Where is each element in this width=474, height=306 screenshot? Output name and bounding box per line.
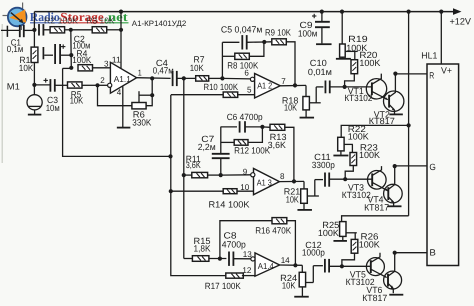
- wire rail to R19: [341, 12, 343, 44]
- transistor VT1: [366, 79, 386, 99]
- capacitor C12: [325, 259, 329, 273]
- resistor R22 (trimmer): [338, 137, 344, 151]
- R16 label: [255, 226, 291, 236]
- C3 value label: [46, 95, 60, 113]
- svg-text:КТ817: КТ817: [369, 116, 395, 126]
- wire collectors to HL1 B pin: [395, 252, 427, 254]
- VT5 label: [346, 270, 375, 288]
- svg-text:R3 10K: R3 10K: [87, 15, 115, 25]
- ground (R22): [333, 155, 348, 157]
- VT4 collector: [388, 166, 394, 189]
- node VT1/VT2 collectors: [393, 72, 397, 76]
- VT2 emitter: [389, 104, 395, 113]
- wire signal column to filters: [183, 78, 185, 258]
- VT6 emitter: [388, 283, 394, 293]
- svg-text:100K: 100K: [318, 228, 339, 238]
- svg-text:R12 100K: R12 100K: [234, 146, 270, 156]
- ground (microphone): [28, 114, 41, 116]
- op-amp A1.2: [250, 74, 280, 99]
- ground (R19): [336, 58, 351, 60]
- wire V+ line: [440, 12, 442, 64]
- wire R4 to pin3: [92, 67, 110, 69]
- wire R24 to ground: [301, 287, 303, 296]
- logo text RadioStorage.net: [30, 10, 129, 24]
- resistor R1: [31, 47, 38, 62]
- ground (pin 4): [117, 127, 131, 129]
- C3 plus sign: [44, 78, 48, 82]
- VT3 collector: [372, 166, 381, 175]
- node VT5 base: [340, 264, 344, 268]
- node D (C6/R12/R13): [260, 125, 264, 129]
- svg-text:1,8K: 1,8K: [194, 244, 211, 254]
- svg-text:A1.4: A1.4: [258, 261, 274, 271]
- node filter2 input: [219, 173, 223, 177]
- wire +12V bus to R22: [341, 125, 408, 137]
- pin 11 line: [120, 12, 122, 69]
- wire A1.3 output: [279, 180, 304, 182]
- resistor R6 (trimmer): [132, 103, 146, 109]
- wire R17 to pin12: [242, 275, 255, 277]
- node A1.1 output: [150, 76, 154, 80]
- node VT3 base: [343, 177, 347, 181]
- svg-text:1000p: 1000p: [302, 247, 325, 257]
- svg-text:5: 5: [247, 85, 252, 95]
- node B (top row / C2 column): [69, 28, 73, 32]
- resistor R16: [272, 218, 287, 224]
- wire R15 to pin13 node: [209, 258, 226, 260]
- resistor R11: [192, 172, 208, 177]
- svg-text:9: 9: [243, 167, 248, 177]
- resistor R15: [192, 256, 209, 262]
- node pin2: [95, 83, 99, 87]
- resistor R20: [351, 60, 358, 74]
- C1 value label: [7, 37, 24, 54]
- node top rail / +12V distribution column: [407, 10, 411, 14]
- svg-text:КТ817: КТ817: [364, 202, 389, 212]
- wire pin2 feedback down: [98, 85, 133, 105]
- svg-text:6: 6: [244, 68, 249, 78]
- wire A1.4 output: [280, 264, 303, 266]
- capacitor C5: [242, 35, 246, 49]
- svg-text:3,6K: 3,6K: [186, 160, 201, 170]
- pin 6 label: [244, 68, 249, 78]
- wire output to R24: [301, 265, 303, 272]
- pin 10 label: [240, 182, 249, 192]
- node VT5/VT6 collectors: [393, 251, 397, 255]
- svg-text:13: 13: [243, 249, 252, 259]
- wire C6 to node D: [245, 126, 263, 128]
- op-amp A1.1: [108, 62, 137, 93]
- VT1 emitter: [372, 91, 388, 100]
- connector HL1 box: [427, 64, 459, 266]
- svg-text:V+: V+: [441, 65, 452, 75]
- svg-text:10K: 10K: [286, 194, 299, 204]
- R11 label: [186, 154, 201, 170]
- svg-text:B: B: [429, 247, 436, 257]
- node VT3/VT4 collectors: [393, 164, 397, 168]
- pin 2 label: [100, 75, 105, 85]
- VT4 label: [364, 194, 389, 212]
- R21 tap to C11: [307, 180, 323, 196]
- VT1 collector: [372, 74, 381, 85]
- resistor R10 row: [171, 94, 223, 96]
- R25 label: [318, 220, 339, 238]
- R21 label: [284, 186, 301, 204]
- svg-text:0,1м: 0,1м: [7, 44, 24, 54]
- R13 label: [268, 132, 287, 150]
- R24 tap to C12: [306, 266, 323, 283]
- capacitor C3: [50, 79, 54, 92]
- svg-text:КТ3102: КТ3102: [344, 93, 372, 103]
- svg-text:HL1: HL1: [421, 51, 437, 61]
- svg-text:10K: 10K: [284, 102, 297, 112]
- wire R25 to ground: [342, 237, 344, 241]
- transistor VT2: [384, 91, 404, 111]
- wire R11 to pin9 node: [208, 174, 221, 176]
- wire R19 to ground: [341, 57, 343, 58]
- wire output to R18: [305, 85, 307, 96]
- VT6 label: [362, 285, 387, 303]
- R9 label: [265, 27, 291, 37]
- svg-text:A1.1: A1.1: [114, 74, 131, 84]
- C12 label: [302, 240, 325, 257]
- pin 13 label: [243, 249, 252, 259]
- R4 label: [72, 48, 91, 65]
- wire node B to R3: [71, 29, 93, 31]
- wire +12V distribution column: [408, 12, 410, 126]
- svg-text:R9 10K: R9 10K: [265, 27, 291, 37]
- ground (R21): [297, 209, 312, 211]
- wire R2 to node B: [65, 29, 71, 31]
- wire signal to R15: [184, 258, 193, 260]
- C10 label: [308, 58, 332, 77]
- svg-text:330K: 330K: [132, 117, 151, 127]
- C5 label: [221, 25, 263, 35]
- wire R12 corner up: [248, 127, 262, 142]
- svg-text:КТ3102: КТ3102: [342, 190, 371, 200]
- wire R14 to pin10: [237, 190, 254, 192]
- R19 label: [346, 34, 367, 53]
- pin 14 label: [281, 255, 290, 265]
- svg-text:7: 7: [281, 76, 286, 86]
- pin 12 label: [242, 265, 251, 275]
- svg-text:2: 2: [100, 75, 105, 85]
- A1.2 label: [257, 80, 272, 90]
- svg-text:R10 100K: R10 100K: [204, 82, 239, 92]
- node R6 tap/output column: [150, 93, 154, 97]
- C2 label: [72, 34, 90, 51]
- svg-text:R14 100K: R14 100K: [209, 199, 250, 209]
- svg-text:10K: 10K: [282, 281, 296, 291]
- C9 label: [298, 20, 318, 39]
- ground (R25): [333, 240, 347, 242]
- svg-text:R2 100K: R2 100K: [44, 15, 78, 25]
- svg-text:R16 470K: R16 470K: [255, 226, 291, 236]
- VT5 emitter: [371, 269, 387, 278]
- node A1.4 output: [293, 263, 297, 267]
- svg-text:100м: 100м: [298, 29, 318, 39]
- transistor VT4: [384, 184, 403, 203]
- R26 label: [359, 232, 380, 250]
- svg-text:10: 10: [240, 182, 249, 192]
- A1.4 label: [258, 261, 274, 271]
- capacitor C9 (electrolytic): [312, 12, 330, 44]
- svg-text:КТ817: КТ817: [362, 293, 387, 303]
- wire R6 to output: [146, 78, 152, 105]
- ground (VT2 emitter): [389, 113, 403, 115]
- svg-text:0,47м: 0,47м: [153, 65, 174, 75]
- wire reference bus: [63, 68, 171, 156]
- R22 label: [348, 124, 369, 142]
- resistor R18 (trimmer): [303, 97, 310, 110]
- svg-text:3: 3: [104, 58, 109, 68]
- svg-text:8: 8: [280, 171, 285, 181]
- node distribution/ch2 bus: [407, 123, 411, 127]
- svg-text:10м: 10м: [46, 103, 60, 113]
- svg-text:100K: 100K: [348, 132, 369, 142]
- R8 label: [227, 61, 258, 71]
- C8 label: [222, 230, 246, 249]
- resistor R12: [234, 140, 248, 146]
- svg-text:14: 14: [281, 255, 290, 265]
- wire collectors to HL1 R pin: [395, 73, 427, 75]
- resistor R2: [50, 27, 65, 33]
- wire R12 row: [221, 141, 235, 143]
- VT6 collector: [388, 253, 395, 276]
- svg-text:3,6K: 3,6K: [268, 140, 286, 150]
- ground (VT6 emitter): [389, 294, 403, 296]
- wire R13 to A1.3 output: [285, 127, 294, 181]
- resistor R24 (trimmer): [299, 272, 305, 287]
- wire input to C1: [1, 29, 20, 31]
- resistor R4: [78, 65, 93, 71]
- wire C6 row: [221, 126, 237, 128]
- node top rail / pin11 column: [119, 10, 123, 14]
- svg-text:R8 100K: R8 100K: [227, 61, 258, 71]
- node filter3 input: [218, 257, 222, 261]
- B pin label: [429, 247, 436, 257]
- svg-text:10K: 10K: [70, 96, 84, 106]
- wire R16 to A1.4 output: [287, 221, 296, 266]
- R6 label: [132, 109, 151, 127]
- svg-text:1: 1: [138, 67, 142, 77]
- svg-text:R: R: [429, 70, 434, 80]
- node top rail / R19: [340, 10, 344, 14]
- wire output to R21: [303, 181, 305, 188]
- svg-text:100K: 100K: [359, 240, 380, 250]
- wire C10 to VT1 base: [330, 86, 372, 88]
- svg-text:M1: M1: [7, 82, 20, 92]
- R12 label: [234, 146, 270, 156]
- wire R23 to VT3 base node: [345, 166, 353, 180]
- svg-text:100K: 100K: [72, 55, 91, 65]
- capacitor C10: [325, 81, 329, 94]
- svg-text:А1-КР1401УД2: А1-КР1401УД2: [132, 19, 187, 28]
- A1.3 label: [257, 178, 272, 188]
- input terminal: [6, 26, 8, 37]
- capacitor C1: [20, 25, 24, 37]
- VT1 label: [344, 86, 372, 103]
- R22 tap to R23: [344, 144, 353, 152]
- wire pin2 node to A1.1 inverting input: [98, 84, 108, 86]
- transistor VT3: [368, 171, 387, 190]
- R3 label: [87, 15, 115, 25]
- svg-text:A1 3: A1 3: [257, 178, 272, 188]
- resistor R14 row: [171, 190, 223, 192]
- svg-text:C6 4700p: C6 4700p: [227, 112, 263, 122]
- op-amp A1.3: [251, 168, 280, 194]
- node signal/R11: [182, 173, 186, 177]
- V+ pin label: [441, 65, 452, 75]
- VT2 collector: [389, 74, 395, 97]
- resistor R23: [350, 153, 357, 166]
- node reference/R14: [169, 189, 173, 193]
- svg-text:R17 100K: R17 100K: [205, 281, 241, 291]
- node VT1 base: [343, 85, 347, 89]
- node C (C5/R8/R9): [262, 40, 266, 44]
- wire C3 to R5: [55, 84, 68, 86]
- pin 3 label: [104, 58, 109, 68]
- resistor R26: [351, 239, 358, 253]
- pin 5 label: [247, 85, 252, 95]
- resistor R21 (trimmer): [301, 189, 308, 203]
- wire R3 to pin11 column: [107, 29, 121, 31]
- capacitor C8: [229, 252, 233, 266]
- wire reference column link: [63, 67, 72, 69]
- pin 4 line: [122, 87, 124, 128]
- svg-text:2,2м: 2,2м: [198, 142, 216, 152]
- wire node C to R9: [264, 41, 271, 43]
- VT4 emitter: [388, 197, 394, 206]
- R17 label: [205, 281, 241, 291]
- R14 label: [209, 199, 250, 209]
- wire node D to R13: [262, 126, 270, 128]
- svg-text:4: 4: [117, 87, 122, 97]
- VT3 emitter: [372, 182, 388, 191]
- wire A1.1 output row: [137, 77, 171, 80]
- svg-text:100K: 100K: [359, 150, 380, 160]
- C6 label: [227, 112, 263, 122]
- resistor R25 (trimmer): [340, 222, 346, 237]
- pin 7 label: [281, 76, 286, 86]
- svg-text:11: 11: [112, 54, 121, 64]
- capacitor C4: [173, 71, 177, 86]
- R24 label: [280, 273, 297, 291]
- node C4/R7 junction: [177, 76, 196, 80]
- R2 label (behind logo): [44, 15, 78, 25]
- svg-text:C5 0,047м: C5 0,047м: [221, 25, 263, 35]
- svg-text:12: 12: [242, 265, 251, 275]
- op-amp A1.4: [251, 253, 280, 276]
- node A1.2 output: [293, 83, 297, 87]
- node A (C1/R1/rail column): [32, 12, 36, 48]
- ground (VT4 emitter): [388, 205, 402, 207]
- pin 1 label: [138, 67, 142, 77]
- wire C8 to pin13: [233, 258, 250, 260]
- wire ch3 bus: [342, 216, 409, 222]
- resistor R19 (trimmer): [340, 44, 346, 57]
- wire pin9: [221, 174, 251, 176]
- wire collectors to HL1 G pin: [395, 165, 427, 167]
- wire R18 to ground: [305, 110, 307, 117]
- capacitor C6: [240, 121, 245, 132]
- capacitor C7 (vertical): [212, 127, 230, 176]
- node top rail / HL1 V+: [439, 10, 443, 14]
- coupling capacitor C2a: [39, 24, 43, 36]
- chip label A1-KR1401UD2: [132, 19, 187, 28]
- resistor R7: [196, 76, 209, 81]
- wire R22 to ground: [340, 151, 342, 155]
- R20 label: [359, 50, 380, 68]
- svg-text:10K: 10K: [19, 63, 34, 73]
- wire R21 to ground: [303, 203, 305, 209]
- pin 9 label: [243, 167, 248, 177]
- R6 trimmer tap: [139, 91, 152, 102]
- R10 label: [204, 82, 239, 92]
- wire R7 to pin6 node: [209, 77, 251, 80]
- wire A1.2 output: [280, 84, 306, 86]
- node pin11 column: [119, 28, 123, 32]
- svg-text:+12V: +12V: [450, 16, 472, 26]
- resistor R10: [223, 92, 238, 97]
- resistor R3: [92, 27, 107, 33]
- capacitor C11: [325, 173, 329, 187]
- R1 label: [19, 55, 34, 73]
- R19 tap to R20: [345, 51, 357, 59]
- +12V label: [450, 16, 472, 26]
- wire reference column: [171, 95, 226, 276]
- C7 label: [198, 134, 216, 152]
- R23 label: [359, 142, 380, 160]
- resistor R8: [235, 53, 250, 59]
- microphone M1: [27, 95, 42, 114]
- wire R9 to A1.2 output node: [287, 42, 295, 86]
- svg-text:G: G: [429, 162, 436, 172]
- VT3 label: [342, 183, 371, 201]
- ground (C9): [316, 43, 332, 45]
- wire C1 to node A: [24, 29, 35, 31]
- ground (R24): [294, 296, 309, 298]
- resistor R13: [270, 124, 285, 130]
- pin 4 label: [117, 87, 122, 97]
- wire R20 to VT1 base node: [345, 74, 355, 87]
- VT2 label: [369, 109, 395, 126]
- svg-text:0,01м: 0,01м: [308, 67, 332, 77]
- VT5 collector: [371, 253, 380, 263]
- node-71 column: [69, 30, 73, 70]
- wire R16 rail: [220, 221, 272, 259]
- M1 label: [7, 82, 20, 92]
- wire mic node to C3: [34, 84, 50, 86]
- wire R26 to VT5 base node: [342, 253, 355, 266]
- pin 8 label: [280, 171, 285, 181]
- svg-text:3300p: 3300p: [312, 160, 335, 170]
- wire R11 row lead: [184, 174, 192, 176]
- wire C11 to VT3 base: [329, 178, 372, 180]
- R7 label: [190, 55, 205, 73]
- svg-text:100K: 100K: [359, 58, 380, 68]
- resistor R5: [68, 82, 83, 88]
- resistor R9: [272, 39, 287, 45]
- wire C12 to VT5 base: [329, 265, 371, 267]
- node reference/bus: [168, 154, 172, 158]
- wire filter1 rail: [222, 42, 239, 78]
- C4 label: [153, 58, 174, 76]
- wire +12V column to ch3 bus: [408, 125, 410, 215]
- wire R10 to pin5: [238, 94, 255, 96]
- wire cap to R2: [43, 29, 50, 31]
- wire R5 to pin2 node: [82, 84, 97, 86]
